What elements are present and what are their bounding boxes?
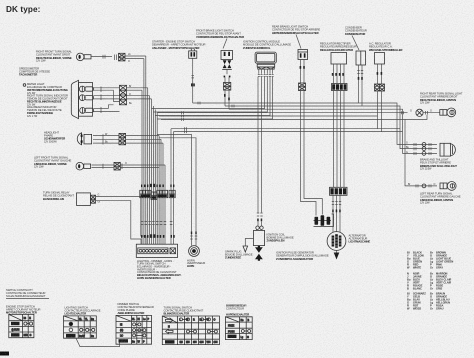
switch block label: [137, 259, 182, 280]
starter switch wire down to bus: [191, 58, 195, 103]
stair wire from module pin 4: [153, 77, 267, 112]
wire to horn 1: [157, 135, 191, 246]
harness connector block row left: [140, 190, 168, 199]
starter engine stop switch: [189, 49, 197, 59]
alternator label: [349, 233, 371, 243]
left front turn signal wires: [92, 164, 114, 169]
spark plug 2: [255, 254, 263, 261]
lighting switch table label: [65, 305, 101, 315]
rear brake switch connector: [299, 83, 306, 91]
front brake switch wires to bus: [224, 90, 230, 109]
regulator rectifier connector: [332, 84, 348, 91]
horn switch table: [225, 317, 252, 340]
harness link to ac regulator: [171, 128, 378, 130]
turn signal relay wires: [96, 194, 147, 245]
wires meter connector to harness: [127, 85, 152, 105]
bus line from front brake switch 1: [225, 106, 437, 149]
wire color letters above connector row: [141, 184, 174, 187]
ignition control module: [255, 52, 276, 76]
meter cluster wires: [94, 87, 120, 114]
bus line 5: [159, 115, 377, 117]
left front turn signal connector: [114, 162, 122, 170]
turn signal relay label: [43, 191, 74, 201]
stair wire from module pin 5: [155, 77, 270, 116]
ignition control module label: [243, 40, 291, 50]
engine stop switch table label: [6, 304, 41, 314]
bus line to right rear turn signal: [157, 112, 407, 114]
dimmer switch table label: [118, 302, 154, 315]
right front turn signal label: [36, 50, 72, 63]
wire right front turn signal to connector: [91, 55, 112, 59]
switch continuity heading: [6, 288, 49, 299]
spark plug 1: [255, 246, 263, 253]
scan edge artifact: [0, 352, 9, 356]
horn switch table label: [226, 303, 249, 316]
starter engine stop switch label: [152, 40, 206, 50]
ac regulator connector: [375, 84, 385, 91]
headlight wires to harness: [126, 136, 163, 144]
stair wire from module pin 3: [152, 77, 265, 109]
left front turn signal label: [34, 156, 72, 169]
harness link wire 2: [174, 131, 382, 133]
ac regulator wires to rear lights: [378, 91, 403, 132]
ignition coil label: [267, 232, 294, 242]
wire to horn 2: [159, 138, 196, 246]
left rear turn signal lamp: [440, 182, 456, 191]
turn signal switch table: [162, 316, 219, 345]
front brake switch connector: [224, 83, 231, 91]
connector right front turn signal: [115, 53, 126, 61]
regulator rectifier label: [320, 42, 357, 52]
left front turn signal lamp: [76, 162, 91, 170]
bus line tick marks: [182, 102, 235, 121]
lighting switch table: [64, 316, 97, 338]
front brake light switch label: [196, 29, 244, 49]
link wire between lighting and dimmer tables: [76, 338, 120, 346]
ignition coil wires from module: [258, 77, 262, 213]
link tick mark: [185, 127, 187, 133]
meter bulb 3 (high beam): [80, 108, 94, 114]
harness wire end letters above switch: [141, 234, 175, 238]
bus line from engine stop switch to brake lamp: [193, 103, 437, 144]
horn wire end marks: [190, 232, 197, 240]
front brake switch wires down: [225, 77, 229, 82]
headlight connector: [119, 133, 126, 144]
alternator: [327, 232, 346, 251]
bus line from front brake switch 2: [229, 109, 437, 153]
harness inline connector marks row 2: [141, 222, 173, 225]
engine stop switch table: [9, 314, 34, 337]
ignition pulse generator label: [276, 250, 329, 261]
alternator ground arrow: [334, 250, 340, 259]
speedometer label: [19, 66, 50, 76]
branch to right rear turn lamp second terminal: [405, 115, 427, 120]
dimmer switch table: [116, 315, 152, 344]
wire color legend english: [407, 251, 453, 270]
harness pair to switch right side: [171, 129, 174, 245]
harness connector pair right: [169, 190, 175, 197]
horn label: [187, 258, 205, 268]
front brake light switch: [221, 51, 233, 78]
regulator rectifier: [331, 53, 347, 84]
brake and taillight label: [420, 158, 457, 171]
right rear turn signal lamp: [440, 108, 456, 117]
stair wire from module pin 6: [157, 77, 272, 119]
turn signal switch table label: [164, 305, 204, 315]
meter light label: [23, 82, 68, 95]
rear brake light switch: [298, 50, 308, 60]
left front turn signal wires to harness: [120, 162, 165, 168]
condenser: [356, 51, 366, 65]
meter cluster connector block: [120, 85, 127, 105]
regulator wires down to alternator: [334, 91, 345, 188]
bus line to left rear turn signal: [161, 120, 437, 186]
meter cluster housing: [71, 80, 92, 118]
wire harness vertical bundle: [142, 56, 165, 244]
wires down to pulse generator: [301, 91, 323, 216]
right rear turn signal wire marks: [402, 110, 413, 115]
wire color legend french: [407, 272, 451, 291]
alternator wires down: [332, 195, 341, 232]
meter bulb 2 (turn indicator): [79, 95, 93, 101]
alternator connector block: [330, 187, 348, 195]
turn signal relay: [77, 193, 96, 206]
horn: [189, 246, 200, 257]
wire from connector into harness: [125, 53, 146, 63]
condenser wires down: [357, 65, 363, 106]
right rear turn signal label: [420, 92, 463, 105]
brake and taillight lamp: [440, 143, 455, 156]
rear brake switch wires down: [300, 60, 305, 84]
coil ground wire and ground arrow: [243, 239, 254, 253]
wire color legend german: [407, 292, 450, 311]
spark plug label: [225, 249, 253, 259]
headlight lamp: [77, 133, 91, 145]
scan noise overlay: [0, 0, 1, 1]
headlight wires: [93, 133, 119, 145]
right turn signal indicator label: [27, 94, 68, 107]
ignition coil: [254, 222, 265, 246]
high beam indicator label: [27, 105, 62, 118]
ac regulator: [375, 53, 385, 85]
ac regulator label: [369, 42, 403, 52]
right rear turn signal bullet connector: [416, 109, 440, 116]
brake taillight wire marks: [406, 142, 431, 156]
condenser label: [345, 26, 367, 50]
headlight label: [44, 130, 65, 143]
left rear turn signal wire marks: [408, 183, 436, 188]
right front turn signal lamp: [76, 53, 91, 61]
meter bulb 1 (meter light): [79, 86, 93, 92]
handlebar switch block (lighting dimmer horn turn signal): [136, 244, 177, 257]
ignition coil wire connector marks: [257, 213, 263, 221]
ignition pulse generator: [314, 214, 334, 227]
rear brake light switch label: [272, 25, 320, 49]
left rear turn signal label: [420, 192, 461, 205]
